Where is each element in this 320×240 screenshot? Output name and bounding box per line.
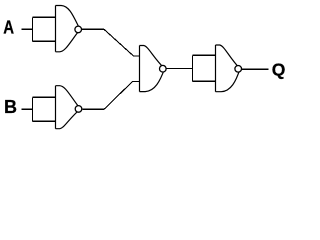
svg-text:A: A <box>3 18 14 38</box>
svg-text:B: B <box>4 97 17 117</box>
svg-text:Q: Q <box>272 60 286 80</box>
